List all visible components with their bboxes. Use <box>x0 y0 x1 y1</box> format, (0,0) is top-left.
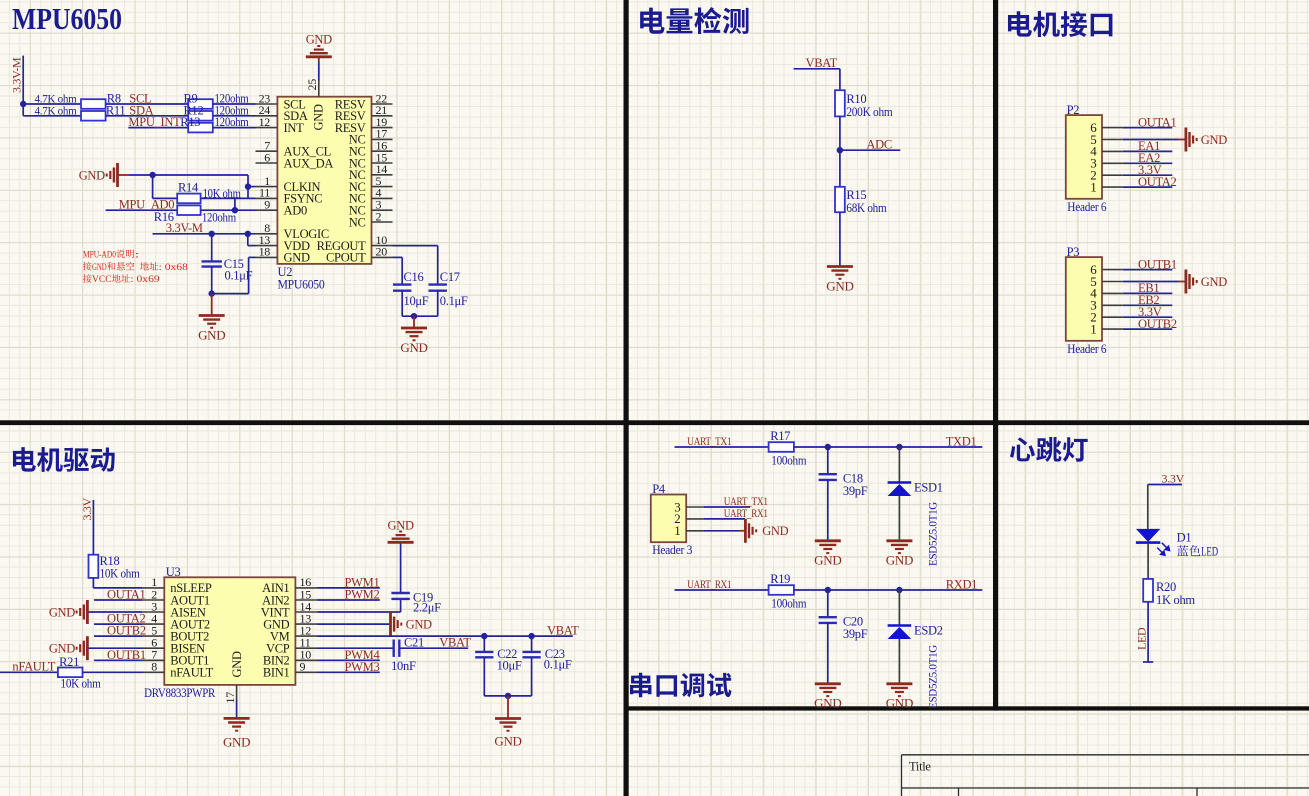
capacitor C23 <box>523 636 541 696</box>
value label 10K ohm (R18) <box>100 567 141 581</box>
wire R21 to pin 8 <box>83 671 143 673</box>
wire end tick <box>1143 661 1153 663</box>
ground below C18 <box>814 541 841 568</box>
pin 22 (RESV) U2 right <box>335 91 393 111</box>
pin 3 P4 <box>674 499 703 514</box>
resistor R18 <box>89 555 99 578</box>
svg-text:UART_TX1: UART_TX1 <box>687 436 731 448</box>
value label 120ohm (R13) <box>215 115 249 129</box>
designator ESD1 <box>914 481 943 495</box>
pin 1 P4 <box>674 523 703 538</box>
pin 6 P3 <box>1090 262 1123 277</box>
section divider vertical right <box>993 0 998 711</box>
wire R9 to U2 pin 23 <box>213 103 256 105</box>
pin 3 P2 <box>1090 156 1123 171</box>
svg-text:3.3V-M: 3.3V-M <box>166 221 203 235</box>
resistor R14 <box>177 194 200 204</box>
pin 15 (NC) U2 right <box>349 150 393 170</box>
designator R8 <box>107 92 121 106</box>
svg-text:GND: GND <box>312 104 326 130</box>
net label PWM3 <box>345 660 380 674</box>
ground at P4 pin1 <box>745 519 788 543</box>
section title 串口调试 <box>630 673 731 698</box>
pin 18 (GND) U2 left <box>256 245 310 265</box>
resistor R19 <box>769 585 794 595</box>
ground below R15 <box>826 267 853 294</box>
section title MPU6050 <box>12 2 122 36</box>
svg-text:R10: R10 <box>846 92 866 106</box>
pin 1 P2 <box>1090 179 1123 194</box>
wire P2 pin 4 net EA1 <box>1123 150 1173 152</box>
capacitor C19 <box>391 543 409 613</box>
wire VBAT down to R10 <box>839 69 841 90</box>
svg-text:9: 9 <box>264 198 270 212</box>
designator R21 <box>59 655 79 669</box>
svg-text:GND: GND <box>388 519 414 533</box>
svg-text:VBAT: VBAT <box>547 624 579 638</box>
value label 蓝色LED (D1) <box>1177 545 1218 559</box>
pin 16 (NC) U2 right <box>349 139 393 159</box>
designator R13 <box>180 115 200 129</box>
value label 0.1uF (C17) <box>440 294 468 308</box>
designator R12 <box>184 103 204 117</box>
resistor R17 <box>769 442 794 452</box>
svg-text:C16: C16 <box>404 270 424 284</box>
svg-text:1: 1 <box>1090 321 1096 336</box>
node C20 junction <box>825 587 831 593</box>
wire P2 pin 5 to ground <box>1123 139 1186 141</box>
net label UART_TX1 <box>687 436 731 448</box>
wire P3 pin 6 net OUTB1 <box>1123 269 1173 271</box>
wire ADC tap <box>840 149 900 151</box>
wire C16-C17 bottom join <box>402 315 438 317</box>
net label UART_RX1 <box>687 579 731 591</box>
svg-text:PWM3: PWM3 <box>345 660 380 674</box>
net label PWM1 <box>345 575 380 589</box>
svg-text:GND: GND <box>1201 275 1227 289</box>
svg-text:Header 6: Header 6 <box>1067 200 1106 214</box>
wire P2 pin 3 net EA2 <box>1123 162 1173 164</box>
pin 12 (INT) U2 left <box>256 115 305 135</box>
svg-text:MPU6050: MPU6050 <box>12 2 122 36</box>
svg-text:ESD5Z5.0T1G: ESD5Z5.0T1G <box>926 644 940 709</box>
net label OUTA2 <box>107 612 146 626</box>
power port 3.3V-M left rail <box>10 57 24 93</box>
designator R10 <box>846 92 866 106</box>
pin 24 (SDA) U2 left <box>256 103 308 123</box>
wire P2 pin 1 net OUTA2 <box>1123 186 1173 188</box>
net label EA2 <box>1138 151 1160 165</box>
svg-text:12: 12 <box>259 115 271 129</box>
wire pin 14 to C19 <box>318 611 401 613</box>
pin 2 P3 <box>1090 310 1123 325</box>
node C18 junction <box>825 444 831 450</box>
wire P3 pin 4 net EB1 <box>1123 292 1173 294</box>
pin 11 (FSYNC) U2 left <box>256 186 323 206</box>
resistor R12 <box>188 111 213 121</box>
svg-text:: 0x68: : 0x68 <box>159 262 188 273</box>
value label 2.2uF (C19) <box>413 601 441 615</box>
connector P2 Header 6 body <box>1066 115 1102 199</box>
svg-text:UART_RX1: UART_RX1 <box>687 579 731 591</box>
resistor R13 <box>188 123 213 133</box>
value label 120ohm (R16) <box>202 211 236 225</box>
wire P4 pin1 to ground <box>704 530 746 532</box>
wire pin25 to GND port <box>318 62 320 81</box>
svg-text:1K ohm: 1K ohm <box>1156 593 1195 607</box>
wire UART_TX1 to R17 <box>675 446 769 448</box>
power port 3.3V (motor driver) <box>80 497 94 520</box>
designator R14 <box>178 181 199 195</box>
value label 100ohm (R17) <box>771 454 807 468</box>
value label 0.1uF (C15) <box>225 269 253 283</box>
net label MPU_AD0 <box>119 198 175 212</box>
pin 1 (CLKIN) U2 left <box>256 174 321 194</box>
wire PWM3 to pin 9 <box>318 671 380 673</box>
net label ADC <box>866 138 892 152</box>
capacitor C15 <box>202 234 222 294</box>
svg-text:ADC: ADC <box>866 138 892 152</box>
wire pin 13 to ground port <box>318 623 391 625</box>
svg-text:3.3V: 3.3V <box>1162 472 1185 486</box>
pin 6 P2 <box>1090 120 1123 135</box>
svg-text:OUTA1: OUTA1 <box>1138 115 1177 129</box>
svg-text:1: 1 <box>1090 179 1096 194</box>
wire P3 pin 2 net 3.3V <box>1123 316 1173 318</box>
designator C17 <box>440 270 460 284</box>
net label OUTB1 <box>107 648 146 662</box>
value label 4.7K ohm (R8) <box>35 92 78 106</box>
pin 4 P2 <box>1090 144 1123 159</box>
wire GND to x248 <box>129 174 248 176</box>
wire MPU_INT to R13 <box>128 127 188 129</box>
designator U3 <box>166 565 181 579</box>
value label 10K ohm (R14) <box>203 187 241 201</box>
pin 5 (BOUT2) U3 left <box>142 623 209 643</box>
wire R17 to TXD1 <box>794 446 982 448</box>
resistor R10 <box>835 90 845 116</box>
wire R11 to R12 (net SDA) <box>106 115 189 117</box>
net label EB2 <box>1138 293 1159 307</box>
net label EA1 <box>1138 139 1160 153</box>
svg-text:AD0: AD0 <box>284 204 307 218</box>
svg-text:R11: R11 <box>106 103 126 117</box>
value label 120ohm (R9) <box>215 92 249 106</box>
designator P4 <box>652 482 666 496</box>
svg-text:39pF: 39pF <box>843 627 868 641</box>
wire R12 to U2 pin 24 <box>213 115 256 117</box>
designator R19 <box>770 572 790 586</box>
wire R19 to RXD1 <box>794 589 982 591</box>
pin 8 (nFAULT) U3 left <box>142 660 214 680</box>
title block label Title <box>909 760 931 774</box>
svg-text:9: 9 <box>300 660 306 674</box>
net label UART_RX1 (P4) <box>724 508 768 520</box>
svg-text:0.1μF: 0.1μF <box>440 294 468 308</box>
annotation MPU-AD0 note line1 <box>83 249 139 260</box>
svg-text:1: 1 <box>674 523 680 538</box>
svg-text:4.7K ohm: 4.7K ohm <box>35 103 78 117</box>
svg-text:NC: NC <box>349 215 366 229</box>
net label TXD1 <box>946 435 977 449</box>
designator R15 <box>846 188 866 202</box>
designator C20 <box>843 615 863 629</box>
wire GND pin 18 loop <box>212 257 256 293</box>
transistor-driver IC U3 DRV8833PWPR body <box>164 577 295 685</box>
svg-text:R17: R17 <box>770 429 790 443</box>
designator C22 <box>497 647 517 661</box>
net label OUTB2 <box>107 624 146 638</box>
pin 3 (NC) U2 right <box>349 198 393 218</box>
value label 4.7K ohm (R11) <box>35 103 78 117</box>
pin 4 P3 <box>1090 286 1123 301</box>
svg-text:GND: GND <box>230 651 244 677</box>
svg-text:GND: GND <box>306 33 332 47</box>
pin 10 (BIN2) U3 right <box>263 648 318 668</box>
resistor R9 <box>188 99 213 109</box>
net label OUTB1 <box>1138 257 1177 271</box>
svg-text:ESD1: ESD1 <box>914 481 943 495</box>
wire PWM1 to pin 16 <box>318 587 380 589</box>
wire R14 net down to AD0 row <box>234 198 236 210</box>
pin 1 (nSLEEP) U3 left <box>142 575 212 595</box>
value label Header 3 (P4) <box>652 543 692 557</box>
svg-text:GND: GND <box>762 524 788 538</box>
pin 14 (NC) U2 right <box>349 162 393 182</box>
wire PWM4 to pin 10 <box>318 659 380 661</box>
svg-text:nFAULT: nFAULT <box>170 666 213 680</box>
wire OUTB1 to pin 7 <box>94 659 142 661</box>
annotation note line3 <box>83 274 160 285</box>
wire UART_RX1 to R19 <box>675 589 769 591</box>
net label PWM4 <box>345 648 381 662</box>
pin 17 (NC) U2 right <box>349 127 393 147</box>
designator C16 <box>404 270 424 284</box>
svg-text:6: 6 <box>264 150 270 164</box>
wire 3.3V to D1 <box>1147 485 1149 529</box>
svg-text:GND: GND <box>886 553 913 568</box>
capacitor C18 <box>819 447 837 541</box>
wire R18 to U3 pin 1 <box>93 578 142 588</box>
ground power port at pin 3 <box>49 600 88 624</box>
net label LED (rotated) <box>1134 627 1148 650</box>
pin 2 (AOUT1) U3 left <box>142 587 210 607</box>
net label PWM2 <box>345 588 380 602</box>
wire 3.3V-M to R11 <box>23 115 81 117</box>
resistor R11 <box>81 111 106 121</box>
power port VBAT (battery sense) <box>794 56 840 70</box>
section title 电机接口 <box>1008 11 1112 37</box>
node C16/C17 gnd junction <box>411 313 417 319</box>
node VDD branch junction <box>245 231 251 237</box>
svg-text:17: 17 <box>223 692 237 704</box>
designator P2 <box>1067 103 1080 117</box>
capacitor C16 <box>393 285 411 317</box>
TVS diode ESD1 <box>888 447 912 541</box>
svg-text:10μF: 10μF <box>497 659 522 673</box>
pin 6 (BISEN) U3 left <box>142 636 205 656</box>
svg-text:GND: GND <box>400 340 427 355</box>
ground power port at pin 13 <box>391 612 433 636</box>
svg-text:GND: GND <box>814 696 841 711</box>
svg-text:nFAULT: nFAULT <box>12 660 55 674</box>
net label OUTA1 <box>107 588 146 602</box>
connector P4 Header 3 body <box>651 495 686 543</box>
svg-text:R20: R20 <box>1156 580 1176 594</box>
value label DRV8833PWPR <box>144 686 216 700</box>
svg-text:AUX_DA: AUX_DA <box>284 156 334 170</box>
capacitor C22 <box>475 636 493 696</box>
node C15 bottom junction <box>209 290 215 296</box>
designator R17 <box>770 429 790 443</box>
wire C22-C23 bottom join <box>484 695 531 697</box>
net label OUTB2 <box>1138 317 1177 331</box>
pin 5 P3 <box>1090 274 1123 289</box>
value label 100ohm (R19) <box>771 597 807 611</box>
node AD0 junction <box>232 207 238 213</box>
designator R16 <box>154 210 174 224</box>
value label Header 6 (P2) <box>1067 200 1106 214</box>
svg-text:R15: R15 <box>846 188 866 202</box>
TVS diode ESD2 <box>888 590 912 684</box>
svg-text:18: 18 <box>259 245 271 259</box>
section title 电机驱动 <box>13 447 115 472</box>
pin 23 (SCL) U2 left <box>256 91 306 111</box>
section divider vertical left <box>624 0 629 796</box>
value label 200K ohm (R10) <box>846 105 893 119</box>
resistor R8 <box>81 99 106 109</box>
value label 0.1uF (C23) <box>544 658 572 672</box>
svg-text:GND: GND <box>826 279 853 294</box>
pin 9 (BIN1) U3 right <box>263 660 318 680</box>
node rail/SCL junction <box>20 101 26 107</box>
svg-text:20: 20 <box>376 245 388 259</box>
designator C19 <box>413 591 433 605</box>
svg-text:10μF: 10μF <box>404 294 429 308</box>
pin 9 (AD0) U2 left <box>256 198 307 218</box>
section title 心跳灯 <box>1010 437 1088 462</box>
wire MPU_AD0 to R16 <box>106 209 178 211</box>
value label 10K ohm (R21) <box>61 677 102 691</box>
pin 13 (VDD) U2 left <box>256 233 310 253</box>
wire P3 pin 1 net OUTB2 <box>1123 328 1173 330</box>
LED D1 <box>1136 529 1170 555</box>
wire R13 to U2 pin 12 <box>213 127 256 129</box>
svg-text:R13: R13 <box>180 115 200 129</box>
svg-text:P4: P4 <box>652 482 666 496</box>
svg-text::: : <box>135 249 140 260</box>
svg-text:OUTB2: OUTB2 <box>107 624 146 638</box>
section divider horizontal lower-right <box>624 706 1309 710</box>
node CLKIN junction <box>245 183 251 189</box>
capacitor C17 <box>429 285 447 317</box>
pin 13 (GND) U3 right <box>263 611 317 631</box>
annotation note line2 <box>83 262 188 273</box>
svg-text:UART_TX1: UART_TX1 <box>724 496 768 508</box>
pin 5 (NC) U2 right <box>349 174 393 194</box>
svg-text:OUTA2: OUTA2 <box>1138 175 1177 189</box>
node C22 junction <box>481 633 487 639</box>
wire P2 pin 6 net OUTA1 <box>1123 127 1173 129</box>
wire pin 11 to C21 <box>318 647 394 649</box>
net label OUTA2 <box>1138 175 1177 189</box>
capacitor C20 <box>819 590 837 684</box>
designator R20 <box>1156 580 1176 594</box>
value label 10uF (C16) <box>404 294 429 308</box>
svg-text:MPU_INT: MPU_INT <box>128 115 181 129</box>
resistor R21 <box>58 668 83 678</box>
value label Header 6 (P3) <box>1067 342 1106 356</box>
value label 68K ohm (R15) <box>846 201 887 215</box>
svg-text:GND: GND <box>814 553 841 568</box>
svg-text:3.3V: 3.3V <box>80 497 94 520</box>
svg-text:GND: GND <box>79 168 105 182</box>
node ESD1 junction <box>896 444 902 450</box>
section title 电量检测 <box>640 7 748 34</box>
svg-text:GND: GND <box>284 251 310 265</box>
wire 3.3V-M rail vertical <box>22 56 24 116</box>
svg-text:3.3V-M: 3.3V-M <box>10 57 24 93</box>
net label VBAT (VCP side) <box>439 635 471 649</box>
ground at P3 pin 5 <box>1186 270 1227 294</box>
wire R14 to pin11 row <box>201 197 256 199</box>
svg-text:CPOUT: CPOUT <box>326 251 366 265</box>
svg-text:TXD1: TXD1 <box>946 435 977 449</box>
value label 120ohm (R12) <box>215 103 249 117</box>
ground below C20 <box>814 684 841 711</box>
pin 8 (VLOGIC) U2 left <box>256 221 329 241</box>
title block frame <box>902 755 1309 796</box>
wire R15 to ground <box>839 212 841 266</box>
designator C15 <box>224 257 244 271</box>
svg-text:2: 2 <box>376 209 382 223</box>
wire P2 pin 2 net 3.3V <box>1123 174 1173 176</box>
resistor R20 <box>1143 579 1153 602</box>
svg-text:GND: GND <box>406 617 432 631</box>
ground power port (left of U2) <box>79 163 129 187</box>
net label VBAT (VM rail) <box>547 624 579 638</box>
svg-text:LED: LED <box>1134 627 1148 650</box>
net label OUTA1 <box>1138 115 1177 129</box>
svg-text:100ohm: 100ohm <box>771 454 807 468</box>
wire R10 to divider node <box>839 116 841 150</box>
svg-text:2.2μF: 2.2μF <box>413 601 441 615</box>
svg-text:25: 25 <box>305 79 319 91</box>
svg-text:OUTB1: OUTB1 <box>107 648 146 662</box>
wire R20 to LED net <box>1147 602 1149 662</box>
wire branch down to R14 <box>153 175 178 198</box>
svg-text:U3: U3 <box>166 565 181 579</box>
ground below C22/C23 <box>494 696 521 749</box>
wire 3.3V-M to R8 <box>23 103 81 105</box>
pin 4 (NC) U2 right <box>349 186 393 206</box>
node C22/C23 gnd junction <box>505 693 511 699</box>
svg-text:P3: P3 <box>1067 245 1080 259</box>
svg-text:GND: GND <box>886 696 913 711</box>
net label MPU_INT <box>128 115 181 129</box>
svg-text:VBAT: VBAT <box>439 635 471 649</box>
svg-text:VBAT: VBAT <box>806 56 838 70</box>
net label 3.3V <box>1138 163 1162 177</box>
wire CPOUT to C16 <box>393 257 403 284</box>
capacitor C21 <box>394 640 469 657</box>
pin 15 (AIN2) U3 right <box>262 587 317 607</box>
wire R16 to U2 pin 9 <box>201 209 256 211</box>
svg-text:OUTB2: OUTB2 <box>1138 317 1177 331</box>
value label 10nF (C21) <box>391 659 416 673</box>
svg-text:UART_RX1: UART_RX1 <box>724 508 768 520</box>
pin 7 (AUX_CL) U2 left <box>256 139 332 159</box>
